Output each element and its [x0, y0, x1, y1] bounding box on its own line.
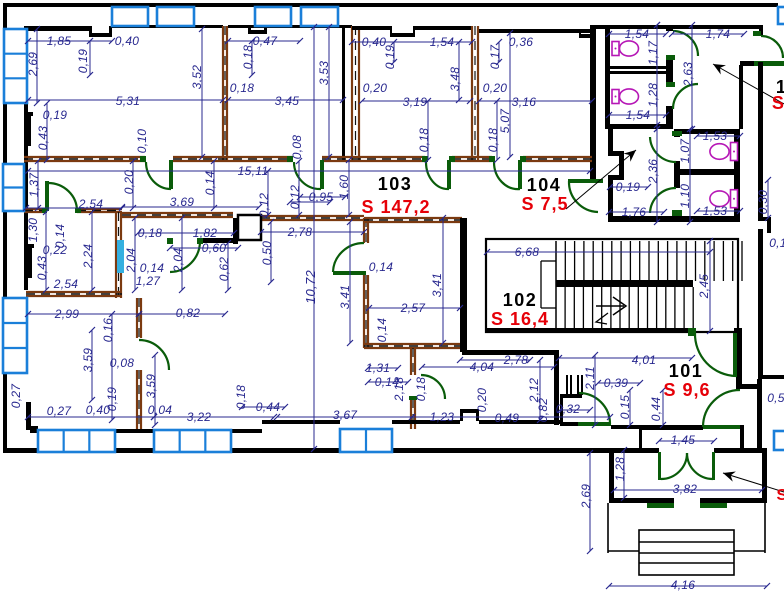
svg-text:3,45: 3,45 [275, 94, 300, 108]
svg-text:0,40: 0,40 [115, 34, 140, 48]
svg-text:0,18: 0,18 [417, 128, 431, 153]
svg-text:3,67: 3,67 [333, 408, 359, 422]
svg-text:1,82: 1,82 [193, 226, 218, 240]
svg-text:0,14: 0,14 [140, 261, 165, 275]
svg-text:1,53: 1,53 [703, 129, 728, 143]
svg-text:2,54: 2,54 [53, 277, 79, 291]
svg-text:0,20: 0,20 [475, 388, 489, 413]
svg-text:S: S [777, 487, 784, 504]
svg-text:0,32: 0,32 [556, 402, 581, 416]
svg-text:0,18: 0,18 [230, 81, 255, 95]
svg-text:S 147,2: S 147,2 [361, 197, 430, 217]
svg-text:2,69: 2,69 [579, 484, 593, 510]
svg-text:101: 101 [669, 361, 704, 381]
svg-text:0,19: 0,19 [383, 45, 397, 70]
svg-text:4,04: 4,04 [470, 360, 495, 374]
svg-text:2,04: 2,04 [124, 248, 138, 274]
svg-text:1,28: 1,28 [646, 83, 660, 108]
svg-text:1,74: 1,74 [706, 27, 731, 41]
svg-text:1,54: 1,54 [626, 108, 651, 122]
svg-text:3,52: 3,52 [190, 65, 204, 90]
svg-text:0,12: 0,12 [257, 193, 271, 218]
svg-text:1,54: 1,54 [625, 27, 650, 41]
svg-text:2,78: 2,78 [503, 353, 529, 367]
svg-text:2,24: 2,24 [81, 244, 95, 270]
svg-text:2,69: 2,69 [26, 52, 40, 78]
svg-text:0,27: 0,27 [9, 383, 23, 409]
svg-text:0,19: 0,19 [43, 108, 68, 122]
svg-text:3,22: 3,22 [187, 410, 212, 424]
svg-text:3,16: 3,16 [512, 95, 537, 109]
svg-text:3,53: 3,53 [317, 61, 331, 86]
svg-text:2,18: 2,18 [392, 377, 406, 403]
svg-text:3,48: 3,48 [448, 67, 462, 92]
svg-text:1,45: 1,45 [671, 433, 696, 447]
svg-text:2,99: 2,99 [54, 307, 80, 321]
svg-text:4,16: 4,16 [671, 578, 696, 592]
svg-text:0,10: 0,10 [135, 129, 149, 154]
svg-text:103: 103 [378, 174, 413, 194]
svg-text:3,82: 3,82 [673, 482, 698, 496]
svg-text:5,07: 5,07 [498, 108, 512, 134]
svg-text:S: S [772, 93, 784, 113]
svg-text:102: 102 [503, 290, 538, 310]
svg-text:0,19: 0,19 [105, 387, 119, 412]
svg-text:1,76: 1,76 [622, 205, 647, 219]
svg-text:1,37: 1,37 [27, 172, 41, 198]
svg-text:0,14: 0,14 [203, 171, 217, 196]
svg-text:0,47: 0,47 [253, 34, 279, 48]
svg-text:0,39: 0,39 [604, 376, 629, 390]
svg-text:0,27: 0,27 [47, 404, 73, 418]
svg-text:0,18: 0,18 [234, 385, 248, 410]
svg-text:0,14: 0,14 [53, 224, 67, 249]
svg-text:0,18: 0,18 [138, 226, 163, 240]
svg-text:0,50: 0,50 [260, 241, 274, 266]
svg-text:0,82: 0,82 [176, 306, 201, 320]
svg-text:2,11: 2,11 [583, 366, 597, 391]
svg-text:0,60: 0,60 [202, 241, 227, 255]
svg-text:2,63: 2,63 [681, 62, 695, 88]
svg-text:6,68: 6,68 [515, 245, 540, 259]
svg-text:2,45: 2,45 [697, 274, 711, 300]
svg-text:0,19: 0,19 [76, 49, 90, 74]
svg-text:0,08: 0,08 [110, 356, 135, 370]
svg-text:0,20: 0,20 [363, 81, 388, 95]
svg-text:0,43: 0,43 [35, 256, 49, 281]
svg-text:1,85: 1,85 [47, 34, 72, 48]
svg-text:0,17: 0,17 [488, 44, 502, 70]
svg-text:3,59: 3,59 [81, 348, 95, 373]
svg-text:10,72: 10,72 [303, 270, 318, 305]
svg-text:2,57: 2,57 [400, 301, 427, 315]
svg-text:0,1: 0,1 [769, 236, 784, 250]
svg-text:0,19: 0,19 [616, 180, 641, 194]
svg-text:4,01: 4,01 [632, 353, 657, 367]
svg-text:0,30: 0,30 [756, 190, 770, 215]
svg-text:1,27: 1,27 [136, 274, 162, 288]
svg-text:1,10: 1,10 [678, 184, 692, 209]
svg-text:1,60: 1,60 [337, 175, 351, 200]
svg-text:2,36: 2,36 [646, 159, 660, 185]
svg-text:3,19: 3,19 [403, 95, 428, 109]
svg-text:0,5: 0,5 [767, 391, 784, 405]
svg-text:3,59: 3,59 [144, 374, 158, 399]
svg-text:0,20: 0,20 [483, 81, 508, 95]
svg-text:2,04: 2,04 [171, 248, 185, 274]
svg-text:1,31: 1,31 [366, 361, 391, 375]
svg-text:0,15: 0,15 [618, 395, 632, 420]
svg-text:0,49: 0,49 [495, 411, 520, 425]
svg-text:2,78: 2,78 [287, 225, 313, 239]
svg-text:3,41: 3,41 [430, 273, 444, 298]
svg-text:0,08: 0,08 [290, 135, 304, 160]
svg-text:2,54: 2,54 [78, 197, 104, 211]
svg-text:0,36: 0,36 [509, 35, 534, 49]
svg-text:S 9,6: S 9,6 [663, 380, 710, 400]
svg-text:0,12: 0,12 [288, 185, 302, 210]
svg-text:1,23: 1,23 [430, 410, 455, 424]
svg-text:0,62: 0,62 [217, 257, 231, 282]
svg-text:104: 104 [527, 175, 562, 195]
svg-text:S 16,4: S 16,4 [491, 309, 549, 329]
svg-text:0,16: 0,16 [101, 318, 115, 343]
svg-text:5,31: 5,31 [116, 94, 141, 108]
svg-text:15,11: 15,11 [238, 164, 269, 178]
svg-text:0,18: 0,18 [241, 45, 255, 70]
svg-text:0,14: 0,14 [369, 260, 394, 274]
svg-text:0,04: 0,04 [148, 403, 173, 417]
svg-text:1,17: 1,17 [646, 40, 660, 66]
svg-text:0,18: 0,18 [414, 377, 428, 402]
svg-text:0,95: 0,95 [309, 190, 334, 204]
svg-text:S 7,5: S 7,5 [521, 194, 568, 214]
svg-text:0,82: 0,82 [536, 398, 550, 423]
svg-text:1,28: 1,28 [613, 457, 627, 482]
svg-text:0,20: 0,20 [122, 170, 136, 195]
svg-text:3,41: 3,41 [338, 285, 352, 310]
svg-text:1,30: 1,30 [26, 218, 40, 243]
svg-text:1,54: 1,54 [430, 35, 455, 49]
svg-text:0,44: 0,44 [649, 397, 663, 422]
svg-text:0,44: 0,44 [256, 400, 281, 414]
svg-text:0,14: 0,14 [375, 318, 389, 343]
svg-text:3,69: 3,69 [170, 195, 195, 209]
svg-text:0,43: 0,43 [36, 126, 50, 151]
svg-text:1,53: 1,53 [703, 204, 728, 218]
svg-text:1,07: 1,07 [678, 138, 692, 164]
